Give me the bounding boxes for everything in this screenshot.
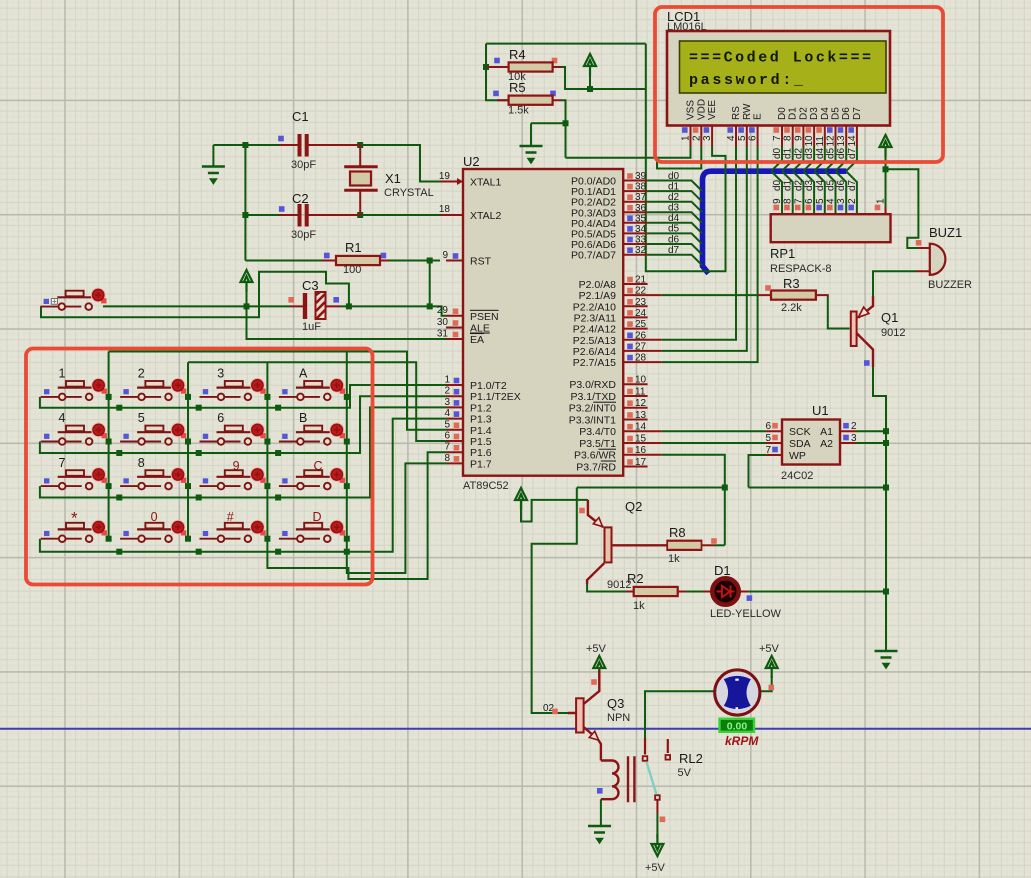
svg-text:19: 19 [439,171,451,182]
svg-text:14: 14 [847,135,858,147]
svg-text:d6: d6 [836,179,847,191]
junction node (245.4,215) [242,212,248,218]
svg-text:1: 1 [876,198,887,204]
wire U2 P0 to bus diagonals [648,181,702,266]
junction node (188,486.1) [185,483,191,489]
svg-text:8: 8 [783,198,794,204]
svg-text:D5: D5 [831,107,842,120]
wire top rail y43 [486,43,646,45]
RP1 pin1 stub [885,207,887,214]
wire WP loop [749,455,767,488]
svg-text:6: 6 [765,421,771,432]
svg-text:6: 6 [804,198,815,204]
button 4 [41,423,107,445]
wire C2 row / XTAL2 [245,214,446,216]
junction node (278.1,407.7) [275,405,281,411]
svg-text:d0: d0 [668,171,680,182]
svg-text:5: 5 [444,419,450,430]
+5V arrow relay down [651,834,663,856]
wire relay bottom arrow stem [656,814,658,838]
svg-text:3: 3 [444,397,450,408]
LCD pin stubs [691,126,857,147]
keypad row wires [40,385,447,408]
svg-text:U2: U2 [463,154,480,169]
svg-text:2: 2 [444,386,450,397]
svg-text:3: 3 [702,135,713,141]
svg-text:36: 36 [635,203,647,214]
button 0 [120,520,186,542]
wire VSS line y157.8 [566,147,691,158]
junction node (188,441.5) [185,439,191,445]
junction node (346.8,396.9) [344,394,350,400]
svg-text:C: C [314,459,323,473]
LED D1 [710,563,782,620]
svg-text:7: 7 [793,198,804,204]
wire RS RW E long verticals [662,147,758,363]
svg-text:39: 39 [635,171,647,182]
junction node (108.6,538.7) [106,536,112,542]
svg-text:d7: d7 [668,245,680,256]
svg-text:30pF: 30pF [291,229,316,241]
svg-text:5V: 5V [678,767,692,779]
svg-text:1: 1 [444,375,450,386]
svg-text:D1: D1 [714,563,731,578]
junction node (486,67) [483,64,489,70]
svg-text:SCK: SCK [789,426,811,438]
svg-text:D0: D0 [777,107,788,120]
svg-text:11: 11 [635,387,646,398]
wire C1 row to gnd [213,144,279,146]
junction node (278.1,551.7) [275,549,281,555]
wire VDD jog [657,147,701,169]
svg-text:VDD: VDD [696,99,707,120]
wire Q1 collector down [873,367,886,651]
svg-text:P1.7: P1.7 [470,458,492,470]
U2 right port labels [569,176,617,474]
junction node (590,89) [587,86,593,92]
svg-text:13: 13 [836,135,847,147]
keypad junction dots [106,394,350,555]
U2 right pin numbers [635,171,647,468]
svg-text:d1: d1 [783,147,794,159]
svg-text:P3.1/TXD: P3.1/TXD [570,391,616,403]
svg-text:21: 21 [635,275,647,286]
svg-text:D2: D2 [798,107,809,120]
button B [279,423,345,445]
wire R4/R5 left rail [486,44,509,101]
svg-text:P1.5: P1.5 [470,436,492,448]
svg-text:d6: d6 [836,147,847,159]
svg-text:d7: d7 [847,179,858,191]
svg-text:d4: d4 [668,213,680,224]
junction node (278.1,497.5) [275,495,281,501]
capacitor C1 [300,134,307,157]
junction node (429.7,260.5) [427,258,433,264]
svg-text:24C02: 24C02 [781,470,813,482]
svg-text:+5V: +5V [759,643,780,655]
wire R1 right to C3 row [429,261,431,307]
wire Q2 +5V [521,500,588,522]
svg-text:Q1: Q1 [881,310,898,325]
svg-text:9: 9 [233,459,240,473]
svg-text:SDA: SDA [789,438,811,450]
junction node (198.7,453) [196,450,202,456]
svg-text:34: 34 [635,224,647,235]
button 9 [200,467,266,489]
ground relay coil [588,826,611,842]
wire U1 A1 A2 to rail [856,431,886,443]
svg-text:LED-YELLOW: LED-YELLOW [710,608,782,620]
svg-text:38: 38 [635,182,647,193]
wire U1 SCK SDA from U2 [662,431,766,443]
svg-text:1: 1 [59,367,66,381]
svg-text:R5: R5 [509,80,526,95]
svg-text:P2.3/A11: P2.3/A11 [574,312,617,324]
svg-text:27: 27 [635,341,647,352]
svg-text:31: 31 [437,329,449,340]
wire P3.6 to R8 riser [662,455,725,546]
wire C1 right to XTAL1 [360,145,446,182]
svg-text:2: 2 [691,135,702,141]
svg-text:P0.7/AD7: P0.7/AD7 [571,250,616,262]
+5V arrow motor [766,656,778,678]
resistor R8 [667,541,701,550]
LCD pin squares [682,127,854,133]
junction node (346.8,441.5) [344,439,350,445]
svg-text:P1.0/T2: P1.0/T2 [470,380,507,392]
svg-text:9012: 9012 [607,579,631,591]
button A [279,378,345,400]
svg-text:7: 7 [59,456,66,470]
+5V arrow Q2 [515,488,527,510]
resistor R3 [771,291,816,300]
svg-text:P1.1/T2EX: P1.1/T2EX [470,391,521,403]
junction node (886,591.5) [883,589,889,595]
svg-text:30pF: 30pF [291,159,316,171]
junction node (245.4,145) [242,142,248,148]
svg-text:kRPM: kRPM [725,734,759,748]
svg-text:10: 10 [635,375,647,386]
svg-text:7: 7 [765,445,771,456]
svg-text:18: 18 [439,204,451,215]
button 5 [120,423,186,445]
svg-text:0: 0 [151,510,158,524]
svg-text:6: 6 [748,135,759,141]
svg-text:CRYSTAL: CRYSTAL [384,187,434,199]
svg-text:3: 3 [217,367,224,381]
svg-text:RESPACK-8: RESPACK-8 [770,263,832,275]
svg-text:#: # [227,510,234,524]
junction node (267.4,441.5) [264,439,270,445]
wire motor right [760,676,772,691]
svg-text:9: 9 [793,135,804,141]
svg-text:A2: A2 [820,438,833,450]
button C [279,467,345,489]
svg-text:RST: RST [470,256,492,268]
svg-text:C1: C1 [292,109,309,124]
svg-text:D4: D4 [820,107,831,120]
wire +5V stub at 246.5 [247,284,447,339]
net labels d0-d7 at P0 [668,171,680,256]
svg-text:+5V: +5V [586,643,607,655]
svg-text:RS: RS [731,106,742,120]
svg-text:R3: R3 [783,276,800,291]
resistor R5 [509,96,553,105]
wire LCD D pins short drops [772,147,857,171]
transistor Q3 NPN [568,670,630,761]
wire R4 right to +5V rail [561,67,646,89]
RP1 pin squares [774,205,881,211]
button 2 [120,378,186,400]
svg-text:EA: EA [470,334,484,346]
svg-text:11: 11 [815,136,826,147]
junction node (198.7,551.7) [196,549,202,555]
junction node (886,443) [883,440,889,446]
relay RL2 [597,738,703,822]
wire pin22 to R3 [662,294,758,296]
LCD pin name labels [686,99,863,120]
svg-text:2: 2 [138,367,145,381]
wire y487.5 long [577,487,886,489]
svg-text:d1: d1 [783,179,794,191]
svg-text:100: 100 [343,264,361,276]
svg-text:35: 35 [635,213,647,224]
svg-text:ALE: ALE [470,323,490,335]
svg-text:1k: 1k [668,553,680,565]
+5V arrow RP1 [880,135,892,157]
U2 right pins [623,181,662,467]
svg-text:C3: C3 [302,278,319,293]
junction node (267.4,486.1) [264,483,270,489]
junction node (198.7,407.7) [196,405,202,411]
svg-text:7: 7 [772,135,783,141]
svg-text:8: 8 [138,456,145,470]
svg-text:D6: D6 [841,107,852,120]
U2 left port labels [470,177,521,471]
svg-text:d4: d4 [815,179,826,191]
reset button [40,288,106,310]
svg-text:26: 26 [635,330,647,341]
+5V arrow R4 [584,54,596,76]
button * [41,520,107,542]
svg-text:P1.6: P1.6 [470,447,492,459]
red highlight box LCD [655,7,943,162]
resistor R1 [336,256,380,265]
U2 left pin squares [453,253,460,462]
svg-text:P3.0/RXD: P3.0/RXD [569,379,616,391]
+5V arrow reset [241,270,253,292]
junction node (429.7,306.4) [427,303,433,309]
svg-text:d0: d0 [772,179,783,191]
svg-text:B: B [299,411,307,425]
junction node (267.4,538.7) [264,536,270,542]
crystal X1 [344,167,378,191]
svg-text:d3: d3 [804,147,815,159]
svg-text:P3.7/RD: P3.7/RD [576,462,616,474]
svg-text:D: D [313,510,322,524]
svg-text:d4: d4 [815,147,826,159]
junction node (360.2,215) [357,212,363,218]
junction node (108.6,396.9) [106,394,112,400]
capacitor C2 [300,204,307,227]
svg-text:d5: d5 [826,179,837,191]
svg-text:30: 30 [437,317,449,328]
wire RP1 pins to bus [772,172,857,215]
resistor R4 [509,62,553,71]
svg-text:4: 4 [826,198,837,204]
svg-text:PSEN: PSEN [470,311,499,323]
svg-text:D7: D7 [852,107,863,120]
svg-text:P3.3/INT1: P3.3/INT1 [569,415,616,427]
junction node (119.3,497.5) [116,495,122,501]
U2 left pin numbers [437,171,451,464]
wire VEE long loop [646,44,726,272]
svg-text:Q3: Q3 [607,696,624,711]
wire R8 right riser [714,544,725,546]
svg-text:password:_: password:_ [689,72,804,89]
svg-text:P2.1/A9: P2.1/A9 [579,290,617,302]
LCD pin numbers 1-14 [681,135,858,147]
svg-text:29: 29 [437,305,449,316]
svg-text:9: 9 [772,198,783,204]
sheet boundary blue line [0,728,1031,730]
svg-text:E: E [753,113,764,120]
svg-text:23: 23 [635,297,647,308]
svg-text:P3.4/T0: P3.4/T0 [579,426,616,438]
svg-text:d2: d2 [793,147,804,159]
svg-text:1k: 1k [633,600,645,612]
button 6 [200,423,266,445]
svg-text:8: 8 [783,135,794,141]
svg-text:d5: d5 [826,147,837,159]
svg-text:13: 13 [635,410,647,421]
RP1 net labels d0-d7 [772,179,858,191]
junction node (346.8,486.1) [344,483,350,489]
svg-text:P1.3: P1.3 [470,414,492,426]
keypad col wires [109,352,447,542]
svg-text:X1: X1 [385,171,401,186]
junction node (198.7,497.5) [196,495,202,501]
junction node (886,487.5) [883,485,889,491]
LCD data net labels d0-d7 [772,147,858,159]
junction node (278.1,453) [275,450,281,456]
junction node (724.8,487.5) [722,485,728,491]
svg-text:3: 3 [851,433,857,444]
svg-text:P3.6/WR: P3.6/WR [574,450,616,462]
svg-text:d1: d1 [668,181,680,192]
svg-text:28: 28 [635,353,647,364]
svg-text:RP1: RP1 [770,246,795,261]
svg-text:7: 7 [444,442,450,453]
wire buzzer bottom to Q1 emitter [873,271,916,296]
svg-text:1.5k: 1.5k [508,105,529,117]
svg-text:14: 14 [635,422,647,433]
wire R3 right to Q1 base [828,296,850,329]
svg-text:VSS: VSS [686,100,697,120]
svg-text:37: 37 [635,192,647,203]
svg-text:12: 12 [826,135,837,147]
junction node (360.2,145) [357,142,363,148]
button # [200,520,266,542]
wire R1 row [245,260,440,262]
junction node (108.6,486.1) [106,483,112,489]
svg-text:2: 2 [851,421,857,432]
svg-text:P3.2/INT0: P3.2/INT0 [569,403,616,415]
svg-text:d5: d5 [668,224,680,235]
wire buzzer top loop [886,169,919,248]
junction node (108.6,441.5) [106,439,112,445]
svg-text:RW: RW [742,103,753,120]
button D [279,520,345,542]
junction node (267.4,396.9) [264,394,270,400]
svg-text:17: 17 [635,457,647,468]
svg-text:4: 4 [59,411,66,425]
svg-text:16: 16 [635,445,647,456]
svg-text:A1: A1 [820,426,833,438]
svg-text:P1.4: P1.4 [470,425,492,437]
svg-text:BUZ1: BUZ1 [929,225,962,240]
svg-text:AT89C52: AT89C52 [463,480,509,492]
junction node (346.8,538.7) [344,536,350,542]
svg-text:6: 6 [217,411,224,425]
svg-text:C2: C2 [292,191,309,206]
svg-text:*: * [71,509,78,528]
red highlight box keypad [26,349,373,585]
svg-text:1uF: 1uF [302,321,321,333]
button 3 [200,378,266,400]
svg-text:6: 6 [444,431,450,442]
wire Q2 collector row to D1 to rail [587,584,886,592]
svg-text:Q2: Q2 [625,499,642,514]
transistor Q2 [579,499,667,584]
svg-text:d7: d7 [847,147,858,159]
keypad button labels [59,367,323,528]
svg-text:P2.7/A15: P2.7/A15 [573,357,616,369]
svg-text:NPN: NPN [607,712,630,724]
svg-text:9: 9 [442,250,448,261]
wire Q3 relay pivot riser / motor [645,691,715,746]
svg-text:5: 5 [765,433,771,444]
svg-text:33: 33 [635,235,647,246]
junction node (119.3,453) [116,450,122,456]
svg-text:R1: R1 [345,240,362,255]
transistor Q1 9012 [851,296,906,367]
svg-text:d2: d2 [793,179,804,191]
svg-text:P2.4/A12: P2.4/A12 [573,324,616,336]
svg-text:BUZZER: BUZZER [928,279,972,291]
junction node (246.5,306.4) [244,303,250,309]
svg-text:8: 8 [444,453,450,464]
svg-text:5: 5 [737,135,748,141]
svg-text:D3: D3 [809,107,820,120]
svg-text:+5V: +5V [645,862,666,874]
ground C1 [202,167,225,183]
wire RP1 pin1 to +5V [885,147,887,207]
+5V arrow Q3 [593,656,605,678]
capacitor C3 (polarized) [303,292,327,319]
junction node (119.3,551.7) [116,549,122,555]
svg-text:WP: WP [789,450,806,462]
wire R8 loop left down to Q3 base [532,488,577,714]
svg-text:3: 3 [836,198,847,204]
svg-text:P3.5/T1: P3.5/T1 [579,438,616,450]
svg-text:d3: d3 [668,203,680,214]
button 7 [41,467,107,489]
svg-text:2: 2 [847,198,858,204]
svg-text:R4: R4 [509,47,526,62]
bus [703,171,847,273]
RP1 pin numbers [772,198,887,204]
